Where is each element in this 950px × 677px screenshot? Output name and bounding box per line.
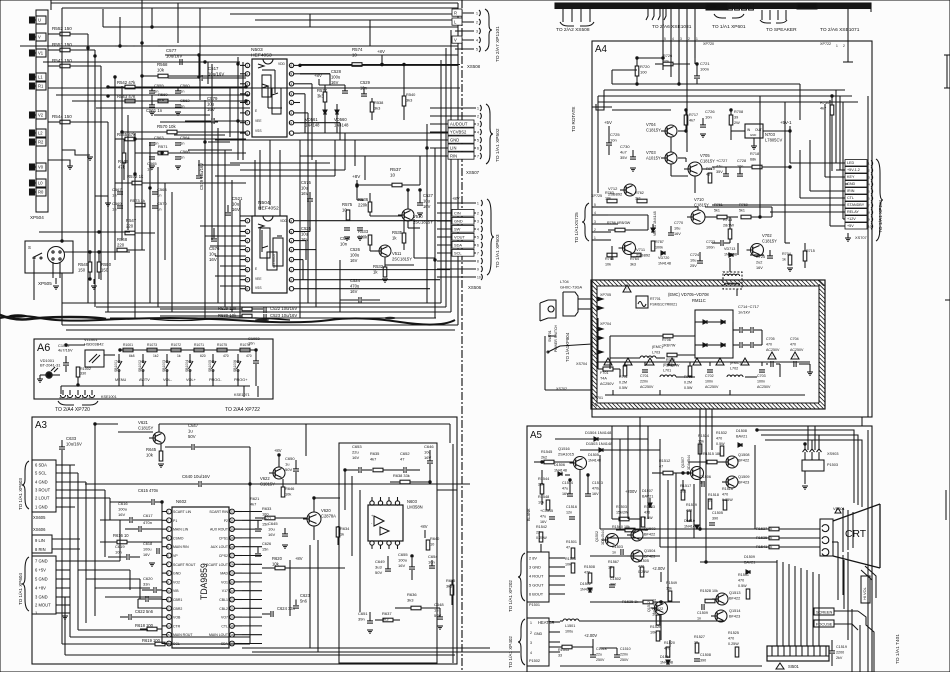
- svg-text:VD560: VD560: [334, 117, 347, 122]
- svg-text:4 GND: 4 GND: [35, 480, 48, 485]
- svg-text:7 GND: 7 GND: [35, 559, 48, 564]
- svg-text:C724: C724: [690, 253, 700, 257]
- svg-text:Q1512: Q1512: [647, 601, 651, 612]
- svg-text:XS903: XS903: [827, 452, 838, 456]
- svg-text:C703: C703: [757, 374, 766, 378]
- svg-text:3k1: 3k1: [635, 197, 641, 201]
- CRT nested RGB wires: [757, 430, 854, 503]
- svg-text:CPS1: CPS1: [219, 536, 228, 540]
- svg-text:3k3: 3k3: [317, 94, 324, 99]
- svg-text:R620: R620: [272, 556, 283, 561]
- svg-text:C560: C560: [180, 83, 190, 88]
- wire bundle to S1501: [776, 560, 778, 646]
- svg-text:RM11C: RM11C: [692, 298, 706, 303]
- svg-text:1n/1kV: 1n/1kV: [738, 310, 751, 315]
- a5 horizontal runs: [600, 528, 700, 530]
- XP201 pin +5V-1.2 2: [845, 167, 867, 173]
- svg-text:2: 2: [594, 228, 596, 232]
- svg-text:0.5W: 0.5W: [619, 386, 628, 390]
- svg-text:100u: 100u: [350, 253, 360, 258]
- svg-text:R1518: R1518: [708, 493, 719, 497]
- svg-text:VP: VP: [173, 554, 178, 558]
- svg-text:220n: 220n: [620, 653, 628, 657]
- svg-text:26: 26: [230, 563, 234, 567]
- XP201 pin +5V 10: [845, 223, 867, 229]
- svg-text:R1533: R1533: [644, 505, 655, 509]
- svg-text:C523 10u/16V: C523 10u/16V: [270, 313, 297, 318]
- svg-text:16V: 16V: [207, 107, 215, 112]
- svg-text:6: 6: [477, 244, 479, 248]
- svg-text:10u/16V: 10u/16V: [166, 54, 182, 59]
- svg-text:+8V: +8V: [452, 196, 460, 201]
- svg-text:SB1001: SB1001: [114, 360, 118, 372]
- resistor R717 4k7: [684, 115, 688, 125]
- svg-text:470: 470: [728, 637, 734, 641]
- svg-text:7: 7: [477, 252, 479, 256]
- svg-text:16V: 16V: [756, 266, 763, 270]
- svg-text:XP720: XP720: [703, 42, 714, 46]
- svg-text:VO2: VO2: [173, 580, 180, 584]
- svg-text:S: S: [28, 245, 31, 250]
- svg-text:1u: 1u: [434, 608, 438, 613]
- svg-text:16V: 16V: [268, 532, 275, 537]
- svg-text:AUX ROUT: AUX ROUT: [210, 528, 229, 532]
- svg-text:3: 3: [477, 220, 479, 224]
- svg-text:50V: 50V: [375, 570, 382, 575]
- CRT electrodes: [842, 508, 844, 552]
- svg-text:+C727: +C727: [716, 159, 727, 163]
- svg-text:BF422: BF422: [738, 459, 749, 463]
- resistor R1075 470: [217, 348, 227, 352]
- connector XSE1001: [60, 395, 65, 398]
- svg-text:3k3: 3k3: [407, 598, 414, 603]
- svg-text:L701: L701: [663, 369, 671, 373]
- svg-text:SCL: SCL: [454, 251, 462, 256]
- svg-text:12: 12: [166, 607, 170, 611]
- svg-text:1k: 1k: [340, 532, 344, 537]
- svg-text:SB1006: SB1006: [233, 360, 237, 372]
- svg-text:470: 470: [716, 437, 722, 441]
- svg-text:1N4148: 1N4148: [554, 469, 567, 473]
- svg-text:C564: C564: [180, 135, 190, 140]
- svg-text:VEE: VEE: [255, 119, 262, 123]
- resistor R705 1R8/7W: [667, 353, 677, 357]
- resistor R1073 1k2: [147, 348, 157, 352]
- svg-text:D1506: D1506: [554, 463, 565, 467]
- svg-text:5: 5: [246, 258, 248, 262]
- resistor R551 150: [60, 48, 70, 52]
- svg-text:R708: R708: [734, 110, 743, 114]
- svg-text:C1508: C1508: [700, 653, 711, 657]
- svg-text:10u: 10u: [207, 102, 215, 107]
- svg-text:2k2: 2k2: [541, 456, 547, 460]
- svg-text:AC250V: AC250V: [766, 348, 780, 352]
- N503 inner mux boxes: [262, 75, 271, 97]
- svg-text:10n: 10n: [428, 560, 435, 565]
- svg-text:CBR2: CBR2: [173, 607, 182, 611]
- svg-text:0.5W: 0.5W: [644, 516, 653, 520]
- resistor R552 150: [60, 32, 70, 36]
- a3 bottom exit wires: [65, 654, 455, 656]
- svg-text:SCART RIN: SCART RIN: [209, 510, 228, 514]
- svg-text:29: 29: [230, 536, 234, 540]
- svg-text:R704: R704: [782, 252, 791, 256]
- diode bridge VD705-VD708: [695, 310, 733, 358]
- button SB1003 VOL-: [166, 354, 168, 360]
- svg-text:4: 4: [672, 37, 674, 41]
- a5 right verticals continuation: [867, 430, 869, 672]
- page fold line: [461, 0, 463, 672]
- svg-text:R763: R763: [605, 191, 614, 195]
- capacitor CBR coupling: [145, 596, 147, 602]
- svg-text:C616: C616: [118, 501, 128, 506]
- bracket XP502: [486, 104, 493, 164]
- svg-text:4k7: 4k7: [250, 502, 256, 507]
- svg-text:+8V: +8V: [274, 448, 282, 453]
- svg-text:L1501: L1501: [565, 624, 575, 628]
- svg-text:C1815Y: C1815Y: [762, 239, 777, 244]
- svg-text:HEF4052: HEF4052: [258, 206, 279, 212]
- svg-text:N503: N503: [251, 47, 263, 53]
- svg-text:C569: C569: [112, 201, 122, 206]
- svg-text:AC250V: AC250V: [757, 385, 771, 389]
- svg-text:TO 1/A1 XP202: TO 1/A1 XP202: [508, 580, 513, 612]
- svg-text:STANDBY: STANDBY: [847, 203, 865, 207]
- svg-text:BAV21: BAV21: [736, 435, 747, 439]
- svg-text:R637: R637: [382, 611, 392, 616]
- svg-text:TO 2/A6 XSE1081: TO 2/A6 XSE1081: [652, 24, 692, 30]
- svg-text:R546: R546: [118, 159, 129, 164]
- svg-text:30: 30: [230, 527, 234, 531]
- svg-text:R532: R532: [373, 264, 384, 269]
- svg-text:8: 8: [246, 131, 248, 135]
- resistor R544 150: [60, 120, 70, 124]
- ground VD1001: [37, 378, 43, 380]
- svg-text:470: 470: [722, 493, 728, 497]
- svg-text:220n: 220n: [640, 380, 648, 384]
- svg-text:1n: 1n: [180, 89, 184, 94]
- connector XP720 pins: [662, 8, 664, 58]
- svg-text:10n: 10n: [705, 115, 712, 120]
- ground under C561: [149, 111, 155, 113]
- svg-text:15k: 15k: [698, 440, 704, 444]
- svg-text:1n: 1n: [697, 617, 701, 621]
- svg-text:1R8/7W: 1R8/7W: [662, 344, 676, 348]
- capacitor C701 220n AC250V: [642, 369, 648, 371]
- XP201 pin KEY 3: [845, 174, 867, 180]
- svg-text:R718: R718: [750, 152, 759, 156]
- svg-text:1n: 1n: [180, 141, 184, 146]
- svg-text:220k: 220k: [358, 235, 368, 240]
- a3 mid horizontals: [70, 560, 120, 562]
- svg-text:15: 15: [289, 230, 293, 234]
- svg-text:16V: 16V: [143, 553, 150, 557]
- svg-text:220: 220: [117, 243, 125, 248]
- svg-text:9: 9: [289, 287, 291, 291]
- svg-text:GND: GND: [173, 572, 181, 576]
- svg-text:TO 1/A1 XP603: TO 1/A1 XP603: [18, 478, 23, 510]
- svg-text:D1505: D1505: [588, 453, 599, 457]
- svg-text:5 SCL: 5 SCL: [35, 471, 47, 476]
- svg-text:R765: R765: [605, 257, 614, 261]
- svg-text:5: 5: [477, 139, 479, 143]
- svg-text:N504: N504: [258, 200, 270, 206]
- svg-text:33: 33: [558, 654, 562, 658]
- A6 top bus: [120, 349, 253, 351]
- svg-text:L1: L1: [38, 75, 43, 80]
- transformer T701 dashed: [723, 272, 742, 289]
- svg-text:100u: 100u: [565, 630, 573, 634]
- svg-text:470: 470: [246, 354, 252, 358]
- svg-text:100n: 100n: [705, 380, 713, 384]
- svg-text:4: 4: [246, 248, 248, 252]
- svg-text:4: 4: [477, 131, 479, 135]
- svg-text:FSMS1C7R0021: FSMS1C7R0021: [650, 303, 677, 307]
- svg-text:XP505: XP505: [38, 281, 52, 286]
- svg-text:MENU: MENU: [115, 378, 126, 382]
- page1 bottom bus lines: [62, 302, 441, 304]
- svg-text:C714~C717: C714~C717: [738, 304, 759, 309]
- svg-text:16V: 16V: [301, 191, 309, 196]
- svg-text:47k: 47k: [118, 165, 126, 170]
- svg-text:R720: R720: [640, 64, 650, 69]
- a4 lower wires extra: [705, 206, 772, 208]
- svg-text:50V: 50V: [285, 467, 292, 472]
- svg-text:24: 24: [230, 580, 234, 584]
- svg-text:C526: C526: [350, 247, 361, 252]
- svg-text:C579: C579: [207, 96, 218, 101]
- svg-text:F701: F701: [600, 371, 608, 375]
- svg-text:C705: C705: [766, 337, 775, 341]
- svg-text:R1503: R1503: [616, 505, 627, 509]
- svg-text:XS605: XS605: [33, 515, 46, 520]
- svg-text:(EMC) VD705~VD708: (EMC) VD705~VD708: [668, 292, 709, 297]
- svg-text:TO 2/A6 XSE1071: TO 2/A6 XSE1071: [820, 27, 860, 33]
- svg-text:1u: 1u: [285, 462, 289, 467]
- svg-text:R1542: R1542: [536, 525, 547, 529]
- svg-text:AC250V: AC250V: [640, 385, 654, 389]
- svg-text:V710: V710: [694, 197, 704, 202]
- svg-text:R575: R575: [342, 202, 353, 207]
- right page edge ticks: [944, 54, 950, 56]
- svg-text:R760: R760: [739, 203, 748, 207]
- a5 crossing verticals: [639, 417, 641, 530]
- svg-text:P1502: P1502: [529, 659, 540, 663]
- svg-text:VO7: VO7: [221, 616, 228, 620]
- svg-text:BF422: BF422: [644, 533, 655, 537]
- resistor R706 1R8/7W: [663, 334, 673, 338]
- capacitor C566 1n: [175, 156, 181, 158]
- svg-text:C529: C529: [360, 80, 371, 85]
- svg-text:+12V: +12V: [847, 217, 856, 221]
- svg-text:10u/16V: 10u/16V: [66, 442, 82, 447]
- svg-text:XS508: XS508: [467, 64, 481, 69]
- svg-text:12: 12: [289, 258, 293, 262]
- svg-text:AUX LOUT: AUX LOUT: [211, 545, 229, 549]
- svg-text:C615 470n: C615 470n: [138, 488, 159, 493]
- svg-text:1: 1: [246, 219, 248, 223]
- svg-text:Q1516: Q1516: [558, 446, 570, 451]
- capacitor C563 1n: [149, 142, 155, 144]
- svg-text:R1: R1: [38, 84, 44, 89]
- N504 internal switches: [258, 224, 264, 228]
- svg-text:R1525: R1525: [728, 631, 739, 635]
- svg-text:V620: V620: [321, 508, 331, 513]
- svg-text:8: 8: [477, 260, 479, 264]
- svg-text:C620: C620: [143, 576, 153, 581]
- svg-text:VOB: VOB: [173, 616, 181, 620]
- svg-text:1N4148: 1N4148: [334, 123, 349, 128]
- diode VD561 1N4148: [323, 110, 327, 114]
- svg-text:KSE1001: KSE1001: [101, 395, 117, 399]
- a5 long wires: [699, 409, 701, 529]
- svg-text:R2: R2: [38, 140, 44, 145]
- svg-text:R574: R574: [352, 47, 363, 52]
- button SB1005 PROG-: [212, 354, 214, 360]
- svg-text:R640: R640: [430, 536, 440, 541]
- regulator N703 L7805CV: [745, 124, 763, 138]
- svg-text:R570 10k: R570 10k: [157, 124, 176, 129]
- svg-text:10: 10: [289, 121, 293, 125]
- svg-text:0.2M: 0.2M: [619, 381, 627, 385]
- svg-text:31: 31: [230, 519, 234, 523]
- svg-text:RIN: RIN: [450, 154, 457, 159]
- svg-text:C653: C653: [352, 444, 362, 449]
- svg-text:R1506: R1506: [565, 557, 576, 561]
- svg-text:0.5W: 0.5W: [738, 584, 747, 588]
- svg-text:13: 13: [166, 615, 170, 619]
- svg-text:C654: C654: [428, 554, 438, 559]
- XP201 pin GND 4: [845, 181, 867, 187]
- capacitor C560 1n: [175, 90, 181, 92]
- svg-text:+200V: +200V: [625, 489, 637, 494]
- connector S1501: [767, 646, 829, 661]
- svg-text:2: 2: [843, 44, 845, 48]
- svg-text:16V: 16V: [331, 80, 339, 85]
- svg-text:R572 1k: R572 1k: [127, 174, 144, 179]
- svg-text:100: 100: [640, 70, 647, 75]
- capacitor C705 470 AC250V: [770, 361, 772, 367]
- resistor R538 3k3: [370, 102, 374, 112]
- svg-text:TO 2/A4 XP722: TO 2/A4 XP722: [225, 407, 260, 413]
- svg-text:C577: C577: [166, 48, 177, 53]
- svg-text:R1532: R1532: [716, 431, 727, 435]
- svg-text:SCREEN: SCREEN: [816, 610, 832, 615]
- svg-text:4k7: 4k7: [689, 119, 695, 123]
- svg-text:10: 10: [289, 278, 293, 282]
- wires V621 area: [118, 431, 153, 433]
- svg-text:R1544: R1544: [538, 477, 550, 481]
- resistor R750 4k7: [830, 105, 834, 115]
- svg-text:R536: R536: [358, 197, 369, 202]
- capacitor C562 1n: [175, 104, 181, 106]
- svg-text:MAIN LIN: MAIN LIN: [173, 528, 189, 532]
- svg-text:R545 47k: R545 47k: [117, 132, 136, 137]
- svg-text:1k: 1k: [782, 258, 786, 262]
- svg-text:L702: L702: [730, 367, 738, 371]
- svg-text:GH0C-73GA: GH0C-73GA: [560, 285, 583, 290]
- diode VD560 1N4148: [335, 110, 339, 114]
- svg-text:+2.00V: +2.00V: [652, 566, 665, 571]
- svg-text:BT-2041-31: BT-2041-31: [40, 363, 60, 368]
- svg-text:XS704: XS704: [576, 362, 587, 366]
- svg-text:R542 47k: R542 47k: [117, 80, 136, 85]
- svg-text:33n: 33n: [143, 582, 150, 587]
- resistor R720 100: [635, 66, 639, 76]
- svg-text:R1001: R1001: [123, 343, 133, 347]
- svg-text:C528: C528: [331, 69, 342, 74]
- mid mesh extra wires: [254, 160, 256, 216]
- svg-text:TO 1/A1 XP201: TO 1/A1 XP201: [878, 199, 884, 233]
- svg-text:C521: C521: [232, 196, 243, 201]
- svg-text:470: 470: [644, 511, 650, 515]
- svg-text:XS507: XS507: [466, 170, 480, 175]
- svg-text:MAIN RIN: MAIN RIN: [173, 545, 189, 549]
- N504 inner mux boxes: [260, 228, 270, 258]
- svg-text:0.25W: 0.25W: [536, 536, 547, 540]
- svg-text:C517: C517: [208, 66, 219, 71]
- svg-text:23: 23: [230, 589, 234, 593]
- svg-text:D1504 1N4148: D1504 1N4148: [585, 430, 611, 435]
- svg-text:C1514: C1514: [562, 481, 573, 485]
- svg-text:R543 47k: R543 47k: [117, 94, 136, 99]
- emi left wires: [539, 303, 541, 321]
- svg-text:C622 5n6: C622 5n6: [135, 609, 154, 614]
- svg-text:C1519: C1519: [836, 645, 847, 649]
- resistor R1078 470: [240, 348, 250, 352]
- svg-text:Q1514: Q1514: [729, 609, 741, 613]
- wires into XP201: [789, 131, 791, 163]
- svg-text:100u: 100u: [398, 558, 407, 563]
- XP504 pin L1: [30, 74, 35, 80]
- svg-text:SCART LOUT: SCART LOUT: [206, 563, 229, 567]
- svg-text:16V: 16V: [674, 232, 681, 236]
- svg-text:C770: C770: [674, 221, 683, 225]
- svg-text:HSD03B42: HSD03B42: [84, 342, 104, 347]
- svg-text:GND: GND: [450, 138, 459, 143]
- svg-text:C567: C567: [112, 187, 122, 192]
- svg-text:47: 47: [400, 457, 405, 462]
- svg-text:V511: V511: [392, 251, 402, 256]
- svg-text:13: 13: [289, 248, 293, 252]
- svg-text:10u: 10u: [301, 232, 309, 237]
- resistor R532 1k: [383, 267, 387, 277]
- svg-text:2: 2: [246, 230, 248, 234]
- svg-text:C1503: C1503: [612, 545, 623, 549]
- svg-text:6 +5V: 6 +5V: [35, 568, 46, 573]
- svg-text:1N4148: 1N4148: [588, 459, 601, 463]
- svg-text:R569: R569: [158, 92, 168, 97]
- svg-text:4: 4: [594, 211, 596, 215]
- svg-text:V703: V703: [646, 150, 656, 155]
- XP201 pin LED 1: [845, 160, 867, 166]
- svg-text:2SC1815Y: 2SC1815Y: [413, 220, 433, 225]
- svg-text:V711: V711: [636, 247, 646, 252]
- svg-text:CBR1: CBR1: [173, 598, 182, 602]
- svg-text:3k3: 3k3: [446, 584, 452, 589]
- svg-text:3: 3: [477, 123, 479, 127]
- junction dots global: [204, 61, 206, 63]
- svg-text:DECODER: DECODER: [272, 254, 276, 268]
- svg-text:+8V: +8V: [377, 49, 385, 54]
- svg-text:R549: R549: [78, 262, 89, 267]
- svg-text:R0: R0: [38, 190, 44, 195]
- svg-text:XP1103: XP1103: [798, 5, 810, 9]
- svg-text:6 BOUT: 6 BOUT: [529, 592, 544, 597]
- svg-text:10: 10: [352, 53, 357, 58]
- XP504 pin V0: [30, 164, 35, 170]
- capacitor C565 1n: [149, 156, 155, 158]
